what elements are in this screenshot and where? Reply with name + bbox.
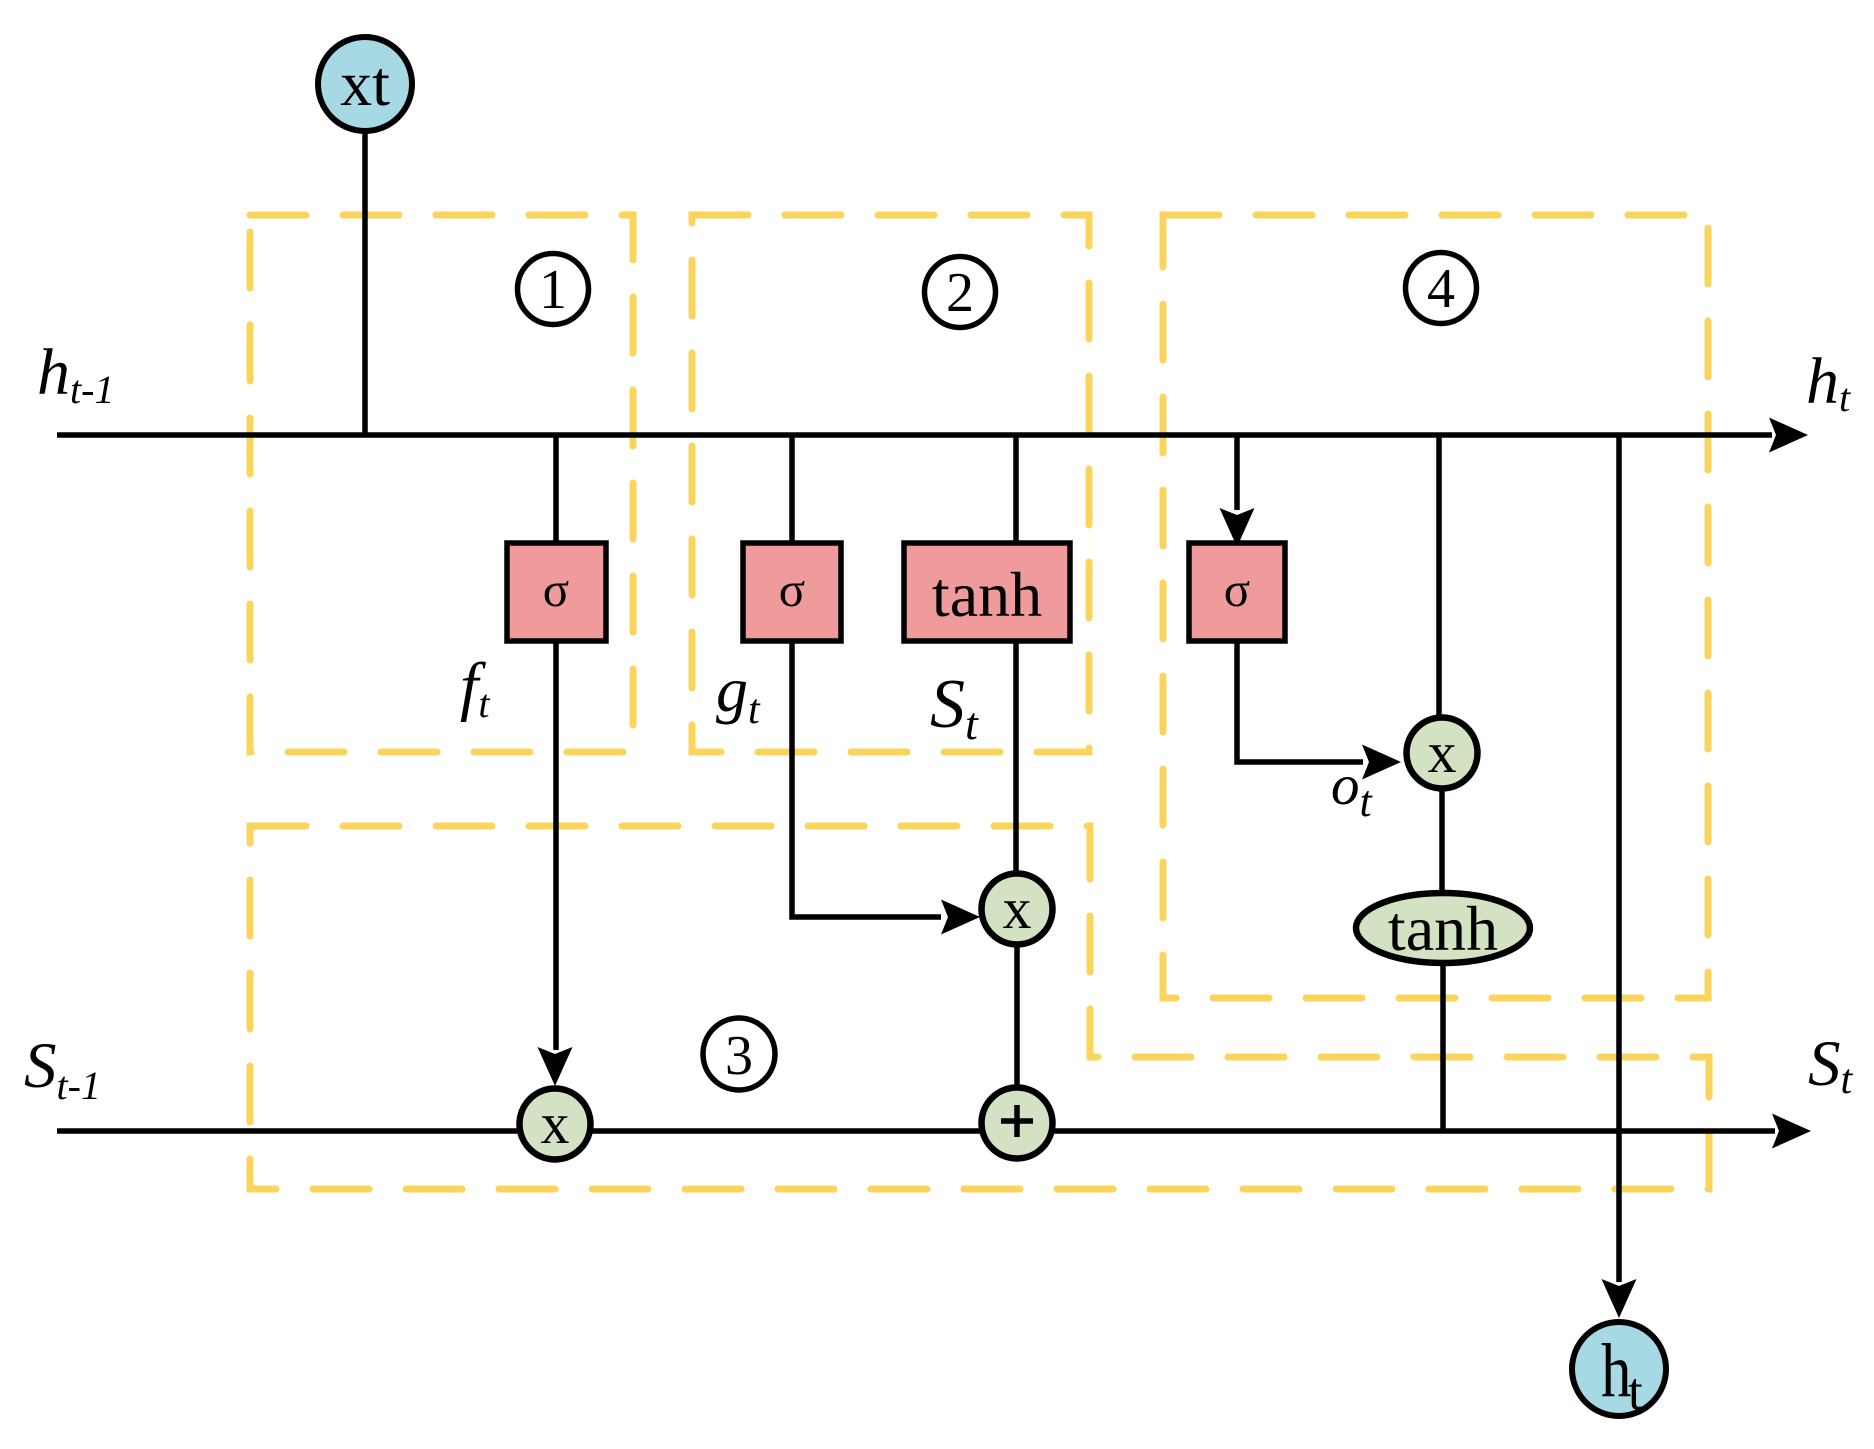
svg-text:xt: xt [340,48,390,119]
wire h-line to output mult [1436,435,1442,716]
wire h-line to sigma f [553,435,559,543]
wire tanh box to input mult [1013,641,1019,872]
node marker 1 [518,254,589,325]
wire h-line ht-1 to ht [57,432,1772,438]
sigma gate f (forget) [507,543,606,641]
arrow into output mult [1362,745,1401,780]
svg-text:tanh: tanh [932,559,1042,630]
wire S-line St-1 to St [57,1128,1775,1134]
wire sigma g elbow to input mult [792,641,941,917]
tanh ellipse [1356,893,1530,964]
sigma gate o (output) [1189,543,1285,641]
arrow into forget mult [538,1047,573,1086]
wire sigma f to mult (forget) [553,641,559,1050]
tanh gate box [904,543,1070,641]
svg-text:x: x [541,1091,570,1156]
dashed region box 1 [250,215,633,752]
arrow S-line right [1772,1114,1811,1149]
svg-text:x: x [1003,876,1032,941]
arrow into sigma o [1220,508,1255,547]
arrow h-line right [1769,418,1808,453]
wire h-line branch to sigma o with arrow [1234,435,1240,510]
dashed region box 3 [250,826,1709,1189]
wire tanh ellipse to S-line [1440,962,1446,1131]
svg-text:h: h [1601,1329,1631,1413]
svg-text:t: t [1628,1363,1643,1421]
wire input mult to plus [1014,945,1020,1086]
node marker 4 [1406,253,1477,324]
svg-text:2: 2 [946,262,974,324]
svg-text:σ: σ [1224,562,1250,617]
svg-text:σ: σ [779,562,805,617]
forget mult circle [520,1089,591,1160]
arrow into ht node [1602,1279,1637,1318]
wire h-line to tanh box [1013,435,1019,543]
svg-text:3: 3 [725,1025,753,1087]
svg-text:x: x [1428,720,1457,785]
arrow into input mult [941,900,980,935]
svg-text:4: 4 [1427,258,1455,320]
plus circle (cell state add) [982,1088,1053,1159]
wire xt stem [362,128,368,435]
wire sigma o elbow to output mult [1237,641,1363,762]
output mult circle [1407,718,1478,789]
node ht (bottom) [1572,1322,1666,1421]
node marker 3 [703,1018,775,1090]
sigma gate g (input) [743,543,841,641]
svg-text:tanh: tanh [1388,893,1498,964]
svg-text:σ: σ [543,562,569,617]
wire output mult to tanh ellipse [1439,789,1445,893]
wire h-line to sigma g [789,435,795,543]
wire ht branch down [1616,435,1622,1282]
dashed region box 2 [692,215,1089,752]
node marker 2 [925,257,996,328]
dashed region box 4 [1163,215,1708,998]
node xt [318,37,412,131]
input mult circle [982,874,1053,945]
svg-text:1: 1 [539,259,567,321]
